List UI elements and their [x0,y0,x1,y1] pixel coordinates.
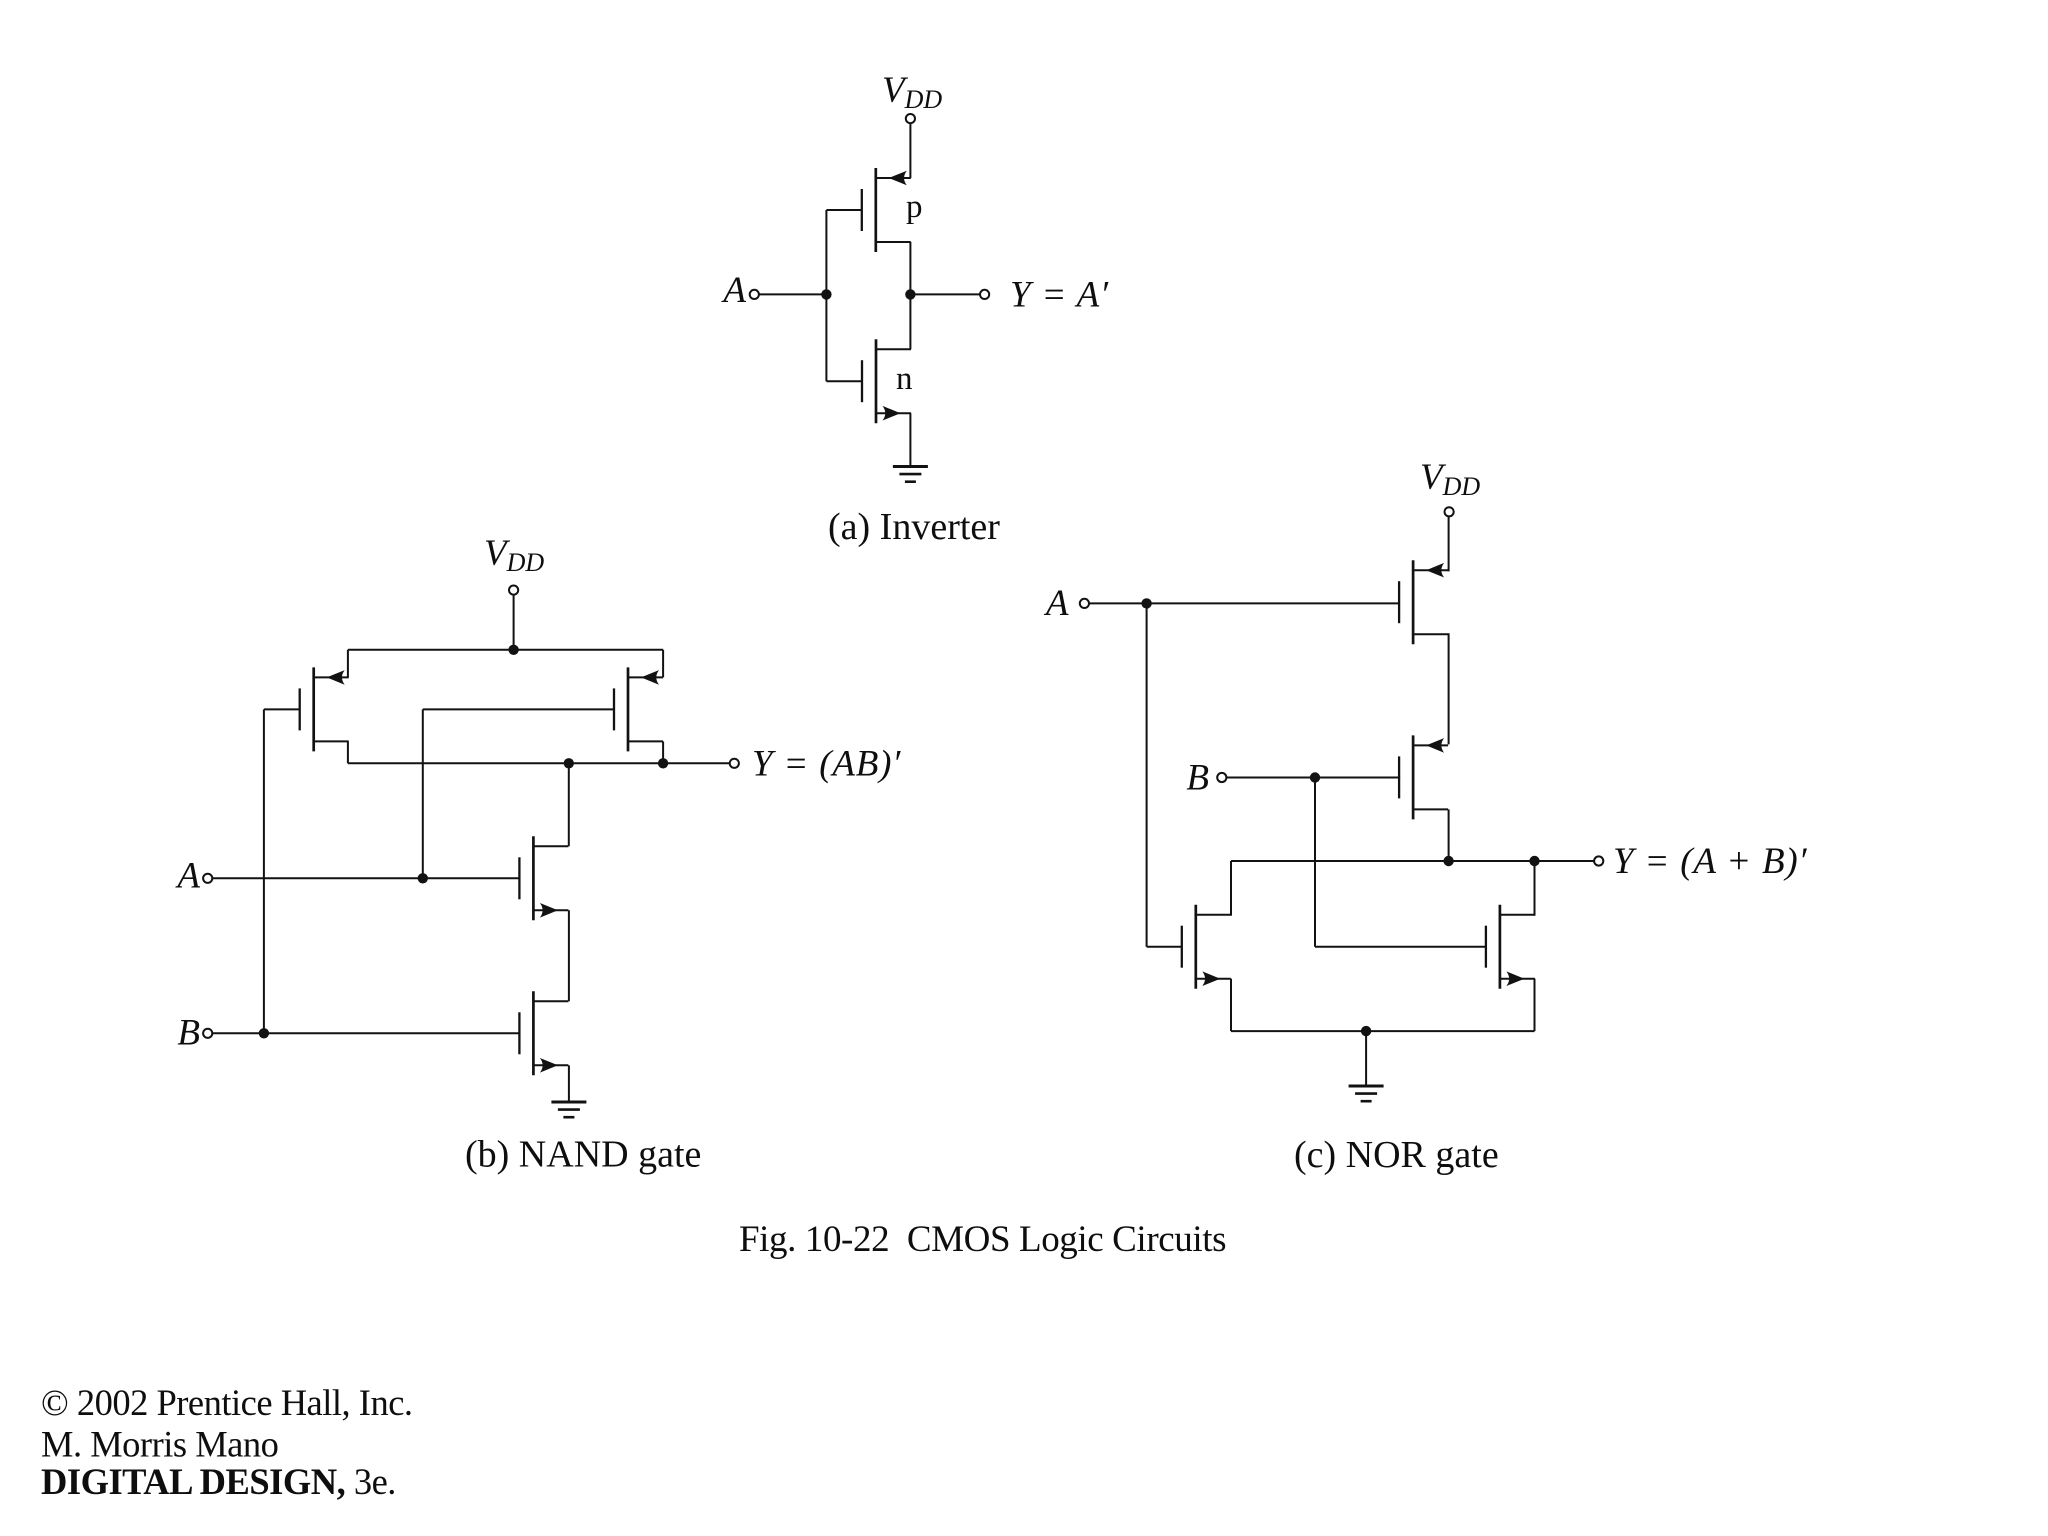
node output junction (a) [905,289,915,299]
svg-text:A: A [1043,583,1069,624]
svg-text:(c) NOR gate: (c) NOR gate [1294,1134,1499,1176]
wire to ground (c) [1365,1031,1367,1086]
transistor P1 (PMOS) NOR upper pull-up, gate A [1399,560,1448,644]
wire rail to left PMOS source (b) [347,650,349,678]
node input junction (a) [821,289,831,299]
wire NMOS2 source to ground (b) [568,1065,570,1102]
transistor N1 (NMOS) NAND upper pull-down, gate A [519,836,568,920]
node ground junction (c) [1361,1026,1371,1036]
wire B gate riser (b) [263,709,265,1033]
ground (b) [551,1102,586,1117]
transistor n (NMOS) inverter pull-down [862,339,911,423]
node NMOS2 drain output junction (c) [1529,856,1539,866]
node right PMOS drain junction (b) [658,758,668,768]
svg-text:Fig. 10-22 CMOS Logic Circuit: Fig. 10-22 CMOS Logic Circuits [739,1219,1226,1260]
wire A riser to NMOS1 gate (c) [1146,603,1148,946]
wire NMOS2 gate lead (c) [1315,946,1486,948]
node A junction (c) [1141,598,1151,608]
transistor N1 (NMOS) NOR left pull-down, gate A [1182,905,1231,989]
transistor N2 (NMOS) NAND lower pull-down, gate B [519,991,568,1075]
svg-text:Y = (A + B)′: Y = (A + B)′ [1613,841,1807,882]
svg-text:B: B [1186,758,1209,799]
wire rail to right PMOS source (b) [662,650,664,678]
wire left PMOS drain drop (b) [347,741,349,763]
wire output to NMOS stack (b) [568,763,570,846]
wire output node to terminal (a) [910,293,980,295]
wire VDD to PMOS A source (c) [1448,516,1450,571]
wire PMOS gate lead (a) [826,209,862,211]
svg-text:DIGITAL DESIGN, 3e.: DIGITAL DESIGN, 3e. [41,1461,396,1502]
wire NMOS1 source drop (c) [1230,979,1232,1031]
input terminal A (c) [1080,599,1089,608]
wire gate riser (a) [825,210,827,381]
power VDD terminal (a) [882,70,942,123]
transistor P1 (PMOS) NAND left pull-up, gate B [300,667,349,751]
wire top rail (b) [348,649,663,651]
wire VDD to top rail (b) [513,595,515,650]
svg-text:VDD: VDD [882,70,942,114]
input terminal A (b) [203,874,212,883]
transistor p (PMOS) inverter pull-up [862,168,911,252]
wire A input to gate riser (a) [759,293,827,295]
input terminal A (a) [750,290,759,299]
wire right PMOS drain drop (b) [662,741,664,763]
wire PMOS drain to output node (a) [909,242,911,294]
transistor N2 (NMOS) NOR right pull-down, gate B [1486,905,1535,989]
output terminal (c) [1594,856,1603,865]
node PMOS drain output junction (c) [1443,856,1453,866]
wire A input line (c) [1089,602,1399,604]
node output-NMOS junction (b) [564,758,574,768]
wire NMOS source to ground (a) [909,413,911,466]
svg-text:n: n [896,361,913,397]
ground (a) [893,467,928,482]
wire bottom rail (c) [1231,1030,1535,1032]
svg-text:A: A [174,855,200,896]
svg-text:(b) NAND gate: (b) NAND gate [465,1134,701,1176]
svg-text:Y = (AB)′: Y = (AB)′ [752,744,901,785]
node VDD rail junction (b) [508,645,518,655]
wire right PMOS gate lead (b) [423,708,614,710]
output terminal (b) [730,759,739,768]
svg-text:A: A [720,270,746,311]
svg-text:(a) Inverter: (a) Inverter [828,506,1000,548]
wire NMOS1 source to NMOS2 drain (b) [568,910,570,1001]
input terminal B (c) [1217,773,1226,782]
svg-text:p: p [906,189,923,225]
input terminal B (b) [203,1029,212,1038]
svg-text:M. Morris Mano: M. Morris Mano [41,1424,278,1465]
transistor P2 (PMOS) NOR lower pull-up, gate B [1399,735,1448,819]
svg-text:Y = A′: Y = A′ [1010,275,1109,316]
transistor P2 (PMOS) NAND right pull-up, gate A [614,667,663,751]
wire NMOS gate lead (a) [826,380,862,382]
svg-text:B: B [177,1013,200,1054]
output terminal (a) [980,290,989,299]
wire output node to NMOS drain (a) [909,294,911,349]
svg-text:VDD: VDD [484,533,544,577]
wire output to NMOS1 drain (c) [1230,861,1232,916]
wire NMOS1 gate lead (c) [1147,946,1183,948]
wire output rail (c) [1231,860,1594,862]
power VDD terminal (b) [484,533,544,595]
ground (c) [1349,1086,1384,1101]
wire B riser to NMOS2 gate (c) [1314,778,1316,947]
wire PMOS B drain to output (c) [1448,809,1450,861]
wire A gate riser (b) [422,709,424,878]
wire left PMOS gate lead (b) [264,708,300,710]
wire A input line (b) [212,877,519,879]
power VDD terminal (c) [1420,457,1480,516]
node B junction (c) [1310,772,1320,782]
node A junction (b) [418,873,428,883]
svg-text:© 2002 Prentice Hall, Inc.: © 2002 Prentice Hall, Inc. [41,1382,413,1423]
wire B input line (b) [212,1032,519,1034]
wire output rail (b) [348,762,730,764]
wire VDD to PMOS source (a) [909,123,911,178]
wire NMOS2 source drop (c) [1534,979,1536,1031]
node B junction (b) [259,1028,269,1038]
svg-text:VDD: VDD [1420,457,1480,501]
wire PMOS A drain to PMOS B source (c) [1448,633,1450,744]
wire output to NMOS2 drain (c) [1534,861,1536,916]
wire B input line (c) [1226,777,1400,779]
